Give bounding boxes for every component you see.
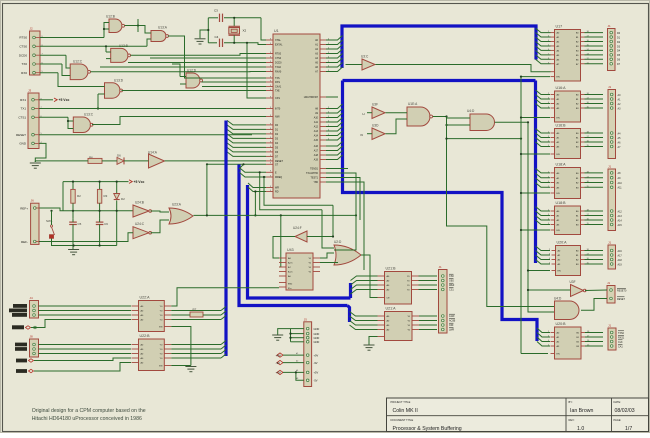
svg-text:U3:C: U3:C [361,55,369,59]
svg-text:TEST1: TEST1 [311,177,319,180]
svg-text:+5V: +5V [314,371,319,375]
svg-text:U13:D: U13:D [114,79,124,83]
svg-text:Colin MK II: Colin MK II [393,408,418,414]
svg-text:U13:C: U13:C [84,113,94,117]
svg-text:TEND1: TEND1 [310,168,319,171]
svg-text:A15: A15 [314,139,319,142]
svg-text:A11: A11 [314,121,319,124]
svg-text:DCD0: DCD0 [19,53,27,57]
svg-text:A19: A19 [618,263,623,266]
svg-text:U24:C: U24:C [135,222,145,226]
svg-text:D2: D2 [121,197,125,201]
svg-text:H: H [363,112,365,116]
svg-text:U24:B: U24:B [135,201,144,205]
svg-text:U18:B: U18:B [556,201,567,205]
svg-text:TXS0: TXS0 [618,332,625,335]
svg-text:C3: C3 [214,9,218,13]
svg-text:U22:B: U22:B [140,334,151,338]
svg-text:J1: J1 [607,281,611,285]
svg-text:A11F: A11F [449,315,455,318]
svg-text:TXA0: TXA0 [275,66,282,69]
svg-text:R2: R2 [77,194,81,198]
svg-text:EN: EN [557,354,560,356]
svg-text:R3: R3 [104,194,108,198]
svg-text:CTS0: CTS0 [19,45,27,49]
svg-text:Processor & System Buffering: Processor & System Buffering [393,426,462,432]
svg-text:+5 Vcc: +5 Vcc [59,98,70,102]
svg-text:RX1: RX1 [20,98,26,102]
svg-text:J1: J1 [608,324,612,328]
svg-text:A15: A15 [618,224,623,227]
svg-text:XTAL: XTAL [275,39,281,42]
svg-text:J1: J1 [439,265,443,269]
svg-text:A13: A13 [314,130,319,133]
svg-text:A12: A12 [618,210,623,213]
svg-text:Original design for a CPM comp: Original design for a CPM computer based… [32,408,146,414]
svg-text:DCD0: DCD0 [275,62,282,65]
svg-text:RESET: RESET [16,133,26,137]
svg-text:EN: EN [557,230,560,232]
svg-text:CKA1: CKA1 [275,86,282,89]
svg-text:J2: J2 [30,27,34,31]
svg-text:A18: A18 [618,259,623,262]
svg-text:J3: J3 [28,89,32,93]
svg-text:U3F: U3F [372,103,378,107]
svg-text:+9V: +9V [314,353,319,357]
svg-text:1.0: 1.0 [577,426,584,432]
svg-text:INT0: INT0 [275,108,281,111]
svg-text:U3F: U3F [570,280,576,284]
svg-text:A16: A16 [618,250,623,253]
svg-text:WR: WR [275,187,279,190]
svg-text:AC0B: AC0B [449,320,456,323]
svg-text:BY:: BY: [569,400,573,404]
svg-text:NMI: NMI [275,116,280,119]
svg-text:PROJECT TITLE: PROJECT TITLE [391,400,411,404]
svg-text:U16:A: U16:A [556,86,567,90]
svg-text:EN: EN [159,366,162,368]
svg-text:U3D: U3D [372,124,379,128]
svg-text:U16:B: U16:B [556,123,567,127]
svg-text:TXA1/PHI0: TXA1/PHI0 [306,172,319,175]
svg-text:CLK: CLK [618,341,623,344]
svg-text:PAGE:: PAGE: [614,418,622,422]
svg-text:J1: J1 [608,165,612,169]
svg-text:RESET: RESET [617,298,626,301]
svg-text:A2.5: A2.5 [288,262,293,265]
svg-text:U1: U1 [274,29,279,33]
svg-text:C0F: C0F [449,324,454,327]
svg-text:TX1: TX1 [20,107,26,111]
svg-text:J6: J6 [31,199,34,203]
svg-text:EN: EN [557,154,560,156]
svg-text:J1: J1 [608,241,612,245]
svg-text:D6: D6 [117,154,121,158]
svg-text:J1: J1 [608,85,612,89]
svg-text:DATE:: DATE: [614,400,622,404]
svg-text:RD: RD [275,191,279,194]
svg-text:A10: A10 [314,117,319,120]
svg-text:CTS1: CTS1 [18,116,26,120]
svg-text:CKS: CKS [275,97,280,100]
svg-text:TXS: TXS [275,77,280,80]
svg-text:EN: EN [557,118,560,120]
svg-text:A14: A14 [618,219,623,222]
svg-text:1/7: 1/7 [625,426,632,432]
svg-text:-9V: -9V [314,361,318,365]
svg-text:U12:B: U12:B [106,15,115,19]
svg-text:Hitachi HD64180 uProcessor con: Hitachi HD64180 uProcessor conceived in … [32,416,142,422]
svg-text:J8: J8 [30,335,34,339]
svg-text:RXS1: RXS1 [618,336,625,339]
svg-text:U1E:A: U1E:A [408,102,418,106]
svg-text:GND: GND [314,332,320,336]
svg-text:A18: A18 [314,154,319,157]
svg-text:C5: C5 [78,222,82,226]
svg-text:C6: C6 [104,222,108,226]
svg-text:U21:B: U21:B [386,266,397,270]
svg-text:J4: J4 [30,296,34,300]
svg-text:CS1: CS1 [449,289,454,292]
svg-text:REF+: REF+ [20,207,28,211]
svg-text:GND: GND [314,327,320,331]
svg-text:U4:D: U4:D [554,297,562,301]
svg-text:A10: A10 [618,182,623,185]
svg-text:-9V: -9V [276,361,281,365]
svg-text:A17: A17 [618,254,623,257]
svg-text:-5V: -5V [314,379,318,383]
svg-text:WE0: WE0 [449,284,455,287]
svg-text:C4: C4 [215,35,219,39]
svg-text:RTS0: RTS0 [19,36,27,40]
svg-text:A13: A13 [618,215,623,218]
svg-text:+5 Vcc: +5 Vcc [134,180,145,184]
svg-text:X2: X2 [243,29,247,33]
svg-text:U23:A: U23:A [172,203,182,207]
svg-text:RXA0: RXA0 [275,71,282,74]
svg-text:U21:A: U21:A [386,306,397,310]
svg-text:REF-: REF- [21,240,28,244]
svg-text:+5V: +5V [276,371,281,375]
svg-text:A17: A17 [314,150,319,153]
svg-text:GND: GND [314,336,320,340]
svg-text:+9V: +9V [276,353,281,357]
svg-text:DOCUMENT TITLE: DOCUMENT TITLE [391,418,414,422]
svg-text:Ian Brown: Ian Brown [570,408,593,414]
svg-text:CTS0: CTS0 [275,57,282,60]
svg-text:A16: A16 [314,145,319,148]
svg-text:RTS0: RTS0 [275,53,282,56]
svg-text:A19: A19 [314,159,319,162]
svg-text:GND: GND [314,340,320,344]
svg-text:EN: EN [558,271,561,273]
svg-text:xWAIT/RFSH: xWAIT/RFSH [304,96,319,99]
svg-text:EN: EN [557,77,560,79]
svg-text:RXS: RXS [275,81,280,84]
svg-text:OE0: OE0 [449,280,454,283]
svg-text:REV:: REV: [569,418,575,422]
svg-text:EN: EN [557,193,560,195]
svg-text:ST: ST [275,164,279,167]
svg-text:U17: U17 [556,24,563,28]
svg-text:YB0: YB0 [313,181,318,184]
svg-text:U2:D: U2:D [334,240,342,244]
svg-text:TX0: TX0 [21,62,27,66]
svg-text:CS0: CS0 [449,275,454,278]
svg-text:EN: EN [159,327,162,329]
svg-text:RX0: RX0 [21,71,27,75]
svg-text:A1.5: A1.5 [288,271,293,274]
svg-text:U4:D: U4:D [467,109,475,113]
svg-text:U20:A: U20:A [557,240,568,244]
svg-text:08/02/03: 08/02/03 [615,408,635,414]
svg-text:A12: A12 [314,126,319,129]
svg-text:MREQ: MREQ [275,176,282,179]
svg-text:J5: J5 [304,317,308,321]
svg-text:U13:A: U13:A [158,26,168,30]
svg-text:U20:B: U20:B [556,322,567,326]
svg-text:RESET0: RESET0 [617,289,627,292]
svg-text:TXE: TXE [275,90,280,93]
svg-text:GND: GND [19,142,27,146]
svg-text:A14: A14 [314,135,319,138]
svg-text:CE: CE [387,298,391,300]
svg-text:U43: U43 [287,248,294,252]
svg-text:U24:F: U24:F [293,226,302,230]
svg-text:U12:C: U12:C [73,60,83,64]
svg-text:U18:A: U18:A [556,162,567,166]
svg-text:J1: J1 [608,24,612,28]
svg-text:EXTAL: EXTAL [275,44,283,47]
svg-text:CA1: CA1 [618,345,623,348]
svg-text:A11: A11 [618,187,623,190]
svg-text:LWR: LWR [449,329,454,332]
svg-text:U22:A: U22:A [140,295,151,299]
